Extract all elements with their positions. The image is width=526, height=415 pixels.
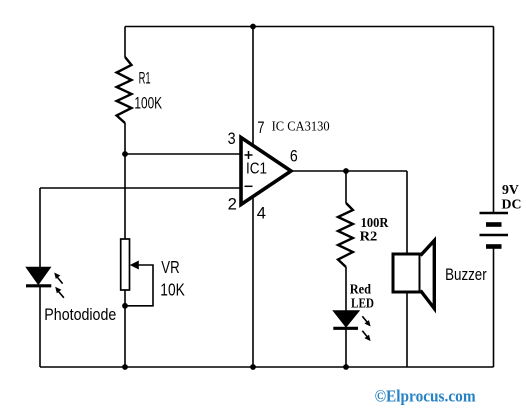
svg-text:IC CA3130: IC CA3130	[272, 118, 330, 133]
wire LED cathode down	[345, 329, 347, 367]
svg-text:10K: 10K	[160, 280, 185, 300]
wire R2 to LED	[345, 267, 347, 311]
wire VR wiper loop	[125, 265, 153, 306]
junction node at pin7 top	[250, 24, 256, 30]
wire pin7 supply	[252, 27, 254, 147]
svg-text:R2: R2	[360, 229, 378, 244]
wire left R1 branch top	[124, 27, 126, 58]
op-amp minus sign	[245, 185, 253, 187]
svg-text:9V: 9V	[502, 182, 519, 197]
junction node VR at bottom rail	[122, 364, 128, 370]
wire buzzer branch top	[406, 171, 408, 254]
svg-text:LED: LED	[351, 296, 374, 311]
LED light arrow 1	[362, 316, 367, 322]
battery plate long	[480, 234, 509, 236]
photodiode light arrow 1	[57, 277, 62, 283]
potentiometer VR body	[121, 239, 130, 290]
buzzer LS1 body	[393, 254, 420, 292]
wire R2 branch top	[345, 171, 347, 203]
svg-text:©Elprocus.com: ©Elprocus.com	[375, 387, 476, 406]
battery plate short	[486, 244, 502, 249]
wire node to VR top	[124, 154, 126, 239]
wire right rail top (battery +)	[493, 27, 495, 213]
svg-text:Photodiode: Photodiode	[44, 305, 116, 324]
wire battery - down	[493, 247, 495, 367]
wire pin4 ground	[252, 196, 254, 367]
op-amp U1 (IC1 CA3130)	[241, 138, 291, 205]
junction node pin4 at bottom rail	[250, 364, 256, 370]
wire photodiode cathode down	[39, 286, 41, 367]
junction node VR wiper/bottom	[122, 303, 128, 309]
wire top rail	[125, 26, 494, 28]
svg-text:6: 6	[290, 147, 298, 166]
svg-text:2: 2	[228, 194, 237, 213]
svg-text:VR: VR	[161, 257, 179, 277]
photodiode light arrow 2	[58, 291, 64, 297]
resistor R2	[338, 203, 353, 267]
buzzer horn	[421, 241, 435, 309]
LED light arrow 2	[362, 331, 367, 337]
wire R1 bottom to node	[124, 123, 126, 154]
wire bottom rail	[40, 366, 494, 368]
svg-text:4: 4	[257, 204, 266, 223]
svg-text:R1: R1	[139, 69, 151, 88]
battery plate short	[486, 222, 502, 227]
svg-text:DC: DC	[502, 196, 522, 211]
photodiode D1	[26, 268, 51, 286]
svg-text:IC1: IC1	[246, 161, 267, 178]
wire pin3 input	[125, 153, 241, 155]
svg-text:Buzzer: Buzzer	[445, 265, 487, 284]
svg-text:Red: Red	[350, 281, 372, 296]
junction node R1/pin3	[122, 151, 128, 157]
LED D2 (Red LED)	[333, 311, 358, 328]
resistor R1	[117, 57, 132, 123]
wire pin2 input	[40, 187, 241, 189]
potentiometer VR wiper arrow	[130, 261, 139, 270]
battery BT1 9V plate + long	[480, 212, 509, 214]
wire pin6 output	[291, 170, 407, 172]
op-amp plus sign	[245, 151, 253, 159]
wire pin2 down to photodiode	[39, 188, 41, 267]
svg-text:7: 7	[257, 118, 264, 137]
junction node LED at bottom rail	[343, 364, 349, 370]
wire VR bottom	[124, 290, 126, 367]
svg-text:100K: 100K	[134, 94, 162, 113]
svg-text:3: 3	[228, 129, 236, 148]
junction node output/R2	[343, 168, 349, 174]
wire buzzer bottom	[406, 292, 408, 367]
